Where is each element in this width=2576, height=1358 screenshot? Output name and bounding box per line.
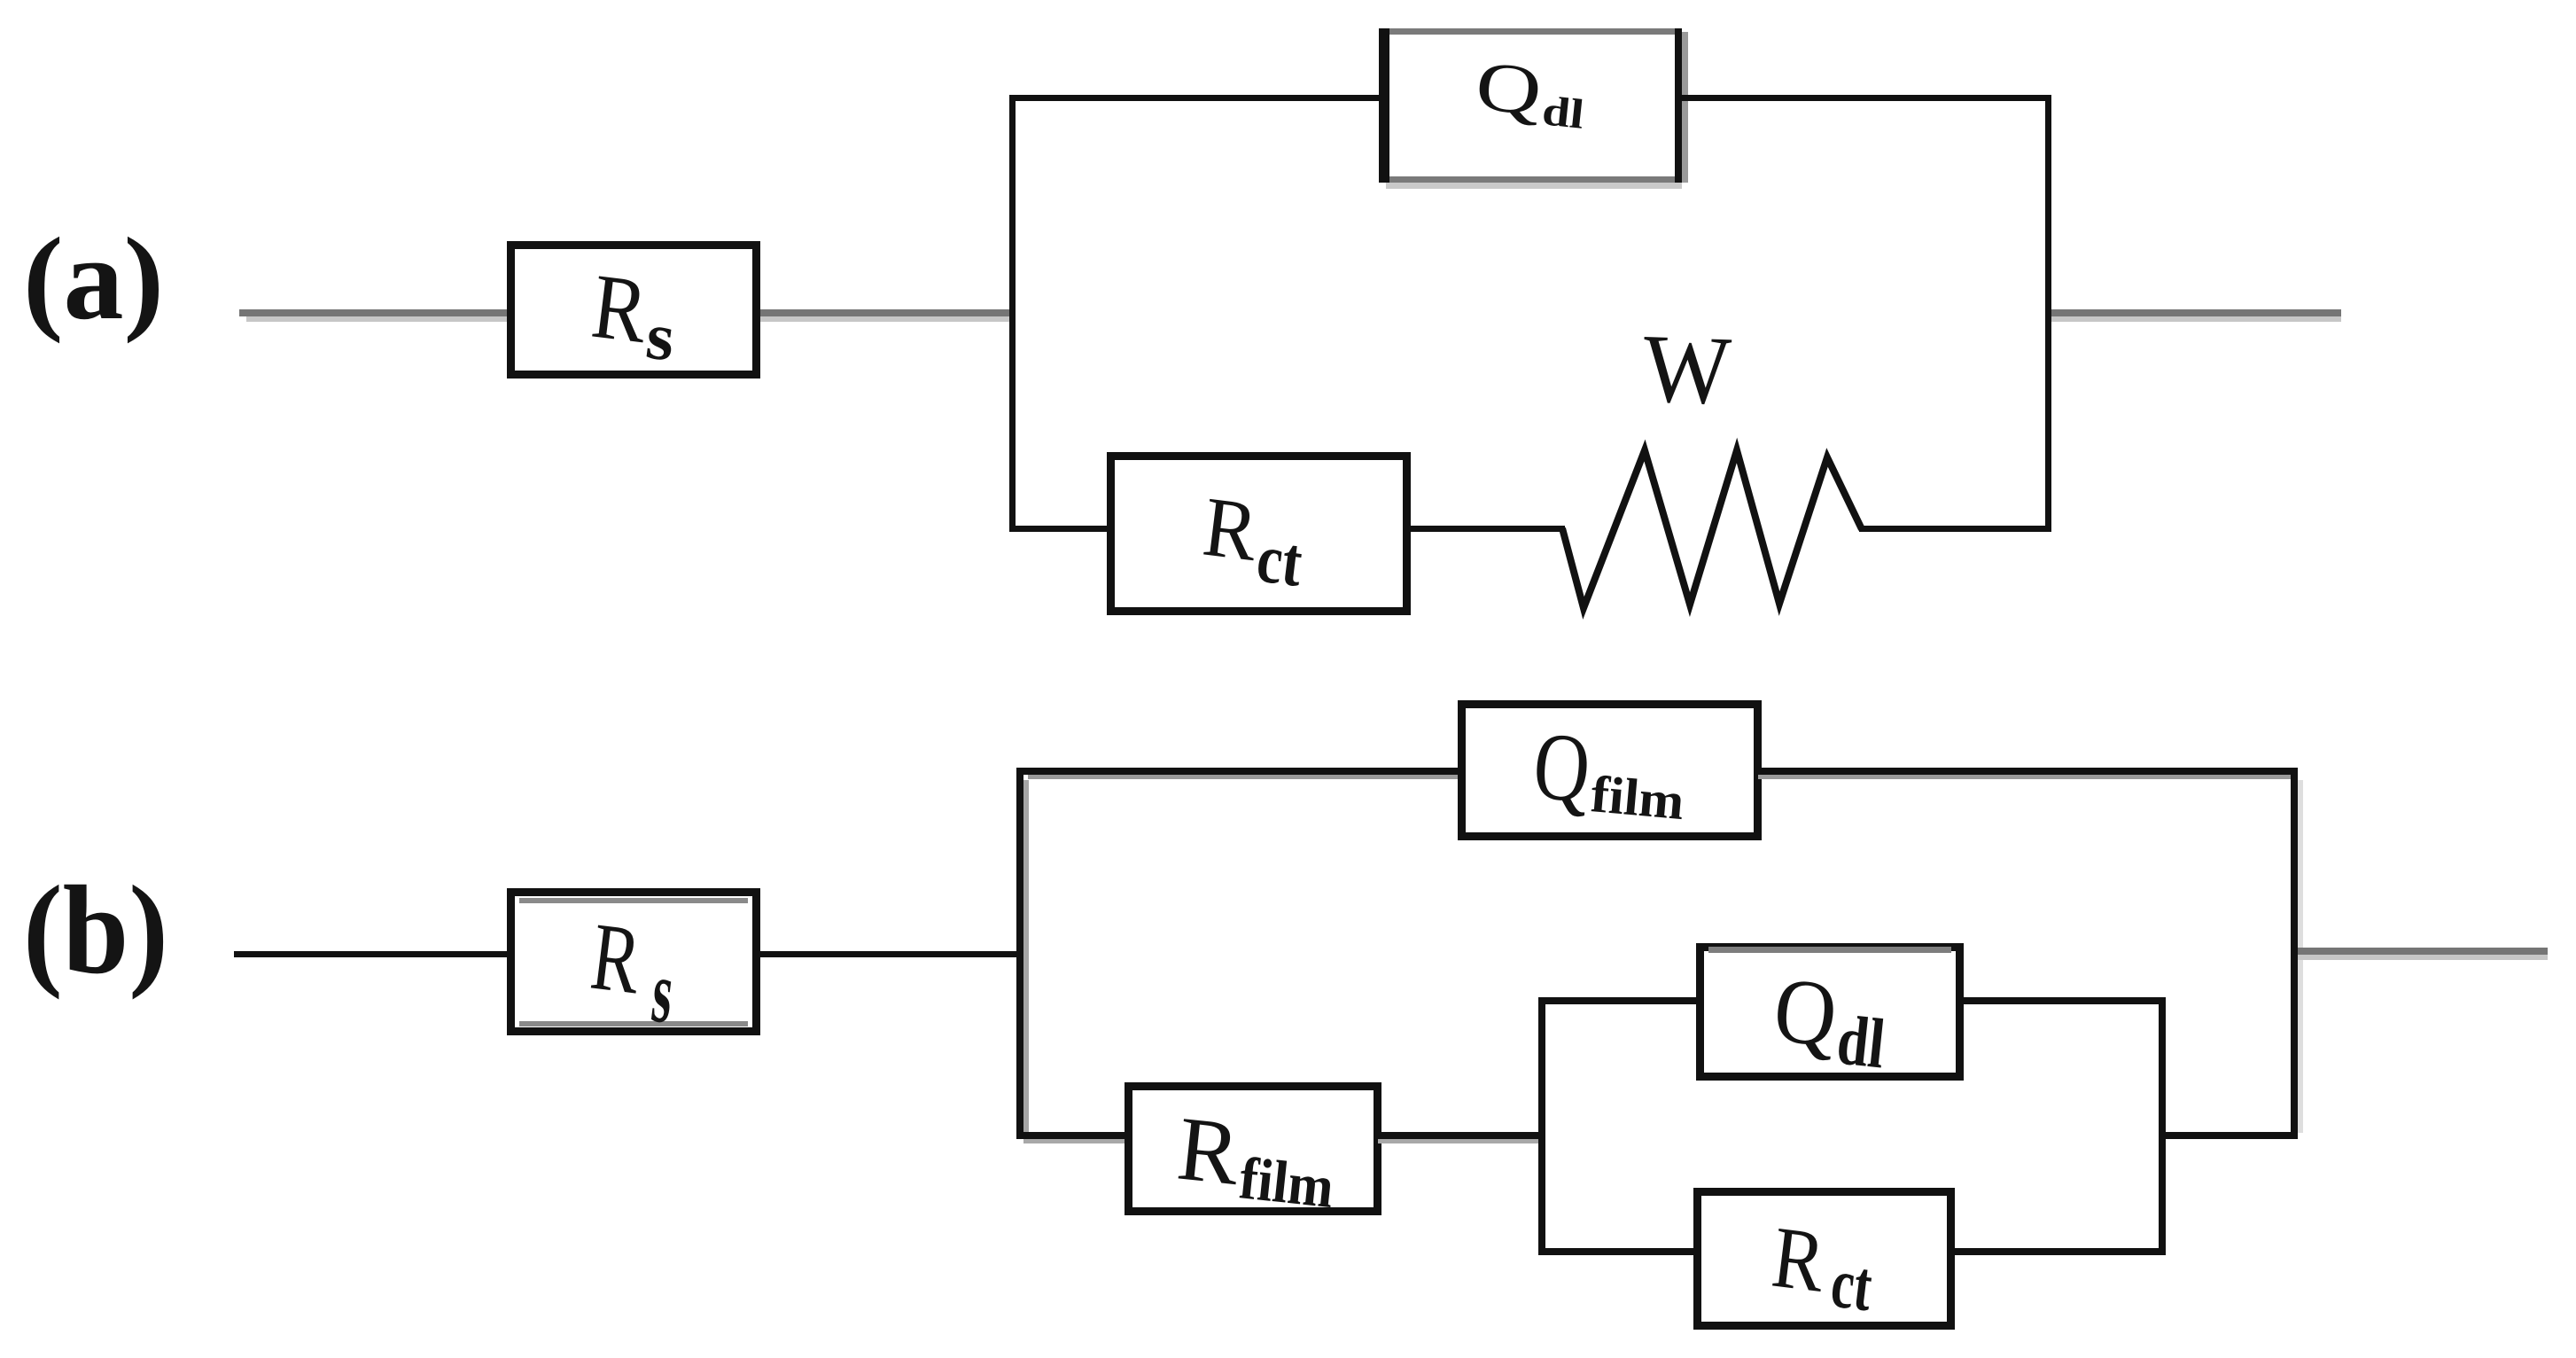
resistor Warburg element W zigzag (circuit a) [1562, 450, 1862, 608]
capacitor CPE Qfilm box (circuit b) [1462, 705, 1758, 837]
svg-text:ct: ct [1253, 520, 1306, 602]
wire bottom branch right segment (a) [1859, 526, 2049, 532]
svg-text:Q: Q [1529, 711, 1594, 823]
resistor Rfilm box (circuit b) [1129, 1087, 1378, 1212]
wire bottom branch middle segment (a) [1407, 526, 1565, 532]
wire output lead of circuit (a), gray [2051, 309, 2341, 322]
svg-text:Q: Q [1472, 47, 1545, 130]
wire outer right vertical junction bar (b) [2291, 768, 2303, 1139]
svg-text:(b): (b) [23, 860, 168, 1000]
value label Qdl (circuit a) [1472, 47, 1586, 137]
capacitor CPE Qdl box (circuit a) [1379, 28, 1688, 189]
resistor Rct box (circuit a) [1111, 457, 1407, 612]
value label Rct (circuit a) [1198, 479, 1306, 602]
resistor Rs (circuit a) [511, 246, 757, 375]
wire from outer-left junction to Rfilm (b) [1023, 1132, 1128, 1143]
wire inner top branch left segment (b) [1545, 997, 1700, 1004]
wire outer top branch left segment (b) [1016, 768, 1461, 779]
wire top branch right segment (a) [1678, 95, 2049, 101]
wire inner left vertical junction bar (b) [1538, 997, 1545, 1255]
wire inner right vertical junction bar (b) [2159, 997, 2166, 1255]
node (a) circuit label [23, 213, 164, 344]
wire outer left vertical junction bar (b) [1016, 768, 1029, 1139]
wire inner bottom branch right segment (b) [1948, 1248, 2162, 1255]
wire right vertical junction bar (a) [2045, 95, 2051, 532]
value label Qdl (circuit b) [1770, 958, 1888, 1084]
node (b) circuit label [23, 860, 168, 1000]
value label Rs (circuit b) [586, 902, 679, 1042]
wire outer top branch right segment (b) [1758, 768, 2298, 779]
svg-text:Q: Q [1770, 958, 1842, 1067]
value label Rfilm (circuit b) [1173, 1097, 1337, 1220]
svg-text:R: R [1173, 1097, 1245, 1205]
wire input lead of circuit (b) [234, 951, 510, 957]
wire left vertical junction bar (a) [1009, 95, 1016, 532]
resistor Rct box (circuit b) [1698, 1192, 1951, 1326]
wire from Rs to outer junction (b) [760, 951, 1020, 957]
svg-text:film: film [1236, 1144, 1336, 1221]
svg-text:W: W [1641, 314, 1732, 425]
wire inner bottom branch left segment (b) [1545, 1248, 1700, 1255]
svg-text:dl: dl [1833, 1001, 1888, 1083]
value label Rs (circuit a) [587, 254, 679, 376]
value label W of Warburg (circuit a) [1641, 314, 1732, 425]
wire output lead of circuit (b), gray [2298, 948, 2548, 960]
value label Qfilm (circuit b) [1529, 711, 1686, 831]
wire bottom branch left segment (a) [1013, 526, 1110, 532]
wire from Rfilm to inner junction (b) [1378, 1132, 1542, 1143]
svg-text:film: film [1589, 764, 1686, 831]
wire from Rs to left junction of parallel pair (a), gray [760, 309, 1013, 322]
svg-text:dl: dl [1540, 88, 1586, 138]
wire connector from inner to outer right junction (b) [2162, 1132, 2294, 1139]
wire inner top branch right segment (b) [1960, 997, 2162, 1004]
wire top branch left segment (a) [1009, 95, 1385, 101]
resistor Rs (circuit b) [511, 893, 757, 1032]
wire input lead of circuit (a), gray [239, 309, 512, 322]
capacitor CPE Qdl box (circuit b) [1700, 947, 1960, 1077]
svg-text:(a): (a) [23, 213, 164, 344]
value label Rct (circuit b) [1767, 1209, 1876, 1327]
